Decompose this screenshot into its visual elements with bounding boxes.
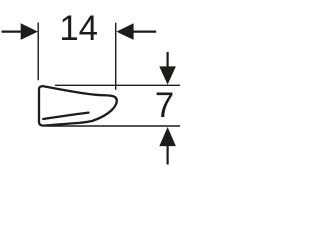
- witness line left (x=38.5): [37, 23, 39, 81]
- shelf profile outline: [39, 86, 117, 126]
- dimension line right tail: [133, 31, 157, 33]
- arrowhead down (points to top extension line): [159, 66, 176, 84]
- arrowhead up (points to bottom extension line): [159, 127, 176, 146]
- dimension line vertical bottom tail: [167, 145, 169, 165]
- svg-text:7: 7: [155, 86, 174, 125]
- arrowhead left (points right): [21, 23, 38, 40]
- svg-text:14: 14: [59, 9, 98, 48]
- shelf inner lip line: [43, 113, 88, 119]
- dimension line vertical top tail: [167, 52, 169, 68]
- extension line bottom of 7 (y=125.8): [48, 125, 181, 127]
- dimension line left tail: [2, 31, 23, 33]
- extension line top of 7 (y=85.3): [55, 84, 180, 86]
- arrowhead right (points left): [116, 23, 133, 40]
- witness line right (x=115.7): [115, 23, 117, 90]
